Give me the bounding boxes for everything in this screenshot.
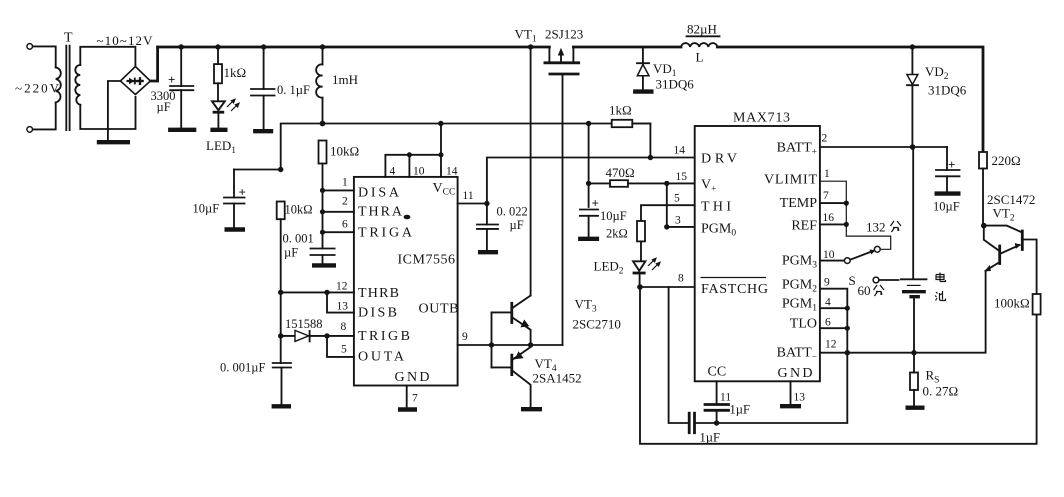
resistor 10k (left rail) [277,202,313,336]
inductor L 82uH [681,22,720,65]
wire top rail (right of VT1) [573,46,681,49]
switch S [820,246,899,298]
svg-text:151588: 151588 [285,317,323,331]
wire PGM2/PGM1/TLO tie [717,289,850,423]
svg-text:PGM1: PGM1 [782,297,817,314]
svg-text:+: + [168,72,175,87]
node VD2/battery [910,144,916,150]
pin1 DISA [320,177,400,201]
svg-text:100kΩ: 100kΩ [994,296,1030,311]
svg-text:6: 6 [825,317,831,329]
svg-text:GND: GND [395,370,430,385]
svg-text:14: 14 [674,145,686,157]
svg-text:7: 7 [412,393,418,405]
diode 1S1588 [278,317,354,341]
svg-text:1µF: 1µF [700,431,720,445]
capacitor 10uF (battery) [933,147,961,214]
svg-text:REF: REF [791,219,817,234]
node emitters [528,342,533,347]
diode VD2 31DQ6 [907,44,967,147]
svg-text:DRV: DRV [701,152,737,167]
transistor VT4 2SA1452 [492,345,582,408]
resistor RS 0.27R [906,353,959,408]
pin12 THRB [336,281,399,302]
svg-text:4: 4 [390,166,396,178]
wire V+ to PGM0 [666,183,668,227]
svg-text:1mH: 1mH [332,72,358,87]
ground (VT4 collector) [521,407,542,411]
resistor 220R [979,152,1021,226]
wire FASTCHG down to bottom rail [640,287,1037,444]
svg-text:TLO: TLO [790,317,817,332]
svg-text:31DQ6: 31DQ6 [928,83,967,98]
wire BATT- rail [820,271,986,353]
capacitor 1uF (CC) [705,381,750,425]
node battery bottom [911,350,916,355]
svg-text:1: 1 [342,177,348,189]
svg-text:~220V: ~220V [15,81,60,96]
LED1 [206,98,240,156]
svg-text:2: 2 [342,196,348,208]
resistor 1k (DRV) [609,103,653,161]
svg-text:µF: µF [157,100,171,114]
svg-text:11: 11 [463,190,474,202]
diode VD1 31DQ6 [633,47,694,92]
svg-text:ICM7556: ICM7556 [398,253,456,268]
svg-text:220Ω: 220Ω [992,153,1021,168]
capacitor 0.001uF (bottom left rail) [220,336,291,406]
svg-text:2SC2710: 2SC2710 [573,317,621,332]
svg-text:µF: µF [510,218,524,232]
svg-text:10µF: 10µF [933,200,960,214]
transformer T primary winding [56,67,61,102]
svg-text:13: 13 [337,301,349,313]
bridge rectifier [120,47,150,95]
ground (bridge) [97,140,130,144]
wire primary bottom [33,102,56,129]
terminal top-left [27,44,33,50]
glyph fen2 [874,285,885,296]
svg-text:TRIGB: TRIGB [358,329,410,344]
LED2 [594,257,662,287]
svg-text:4: 4 [825,297,831,309]
node BATT- / pins vertical [845,350,850,355]
svg-text:TEMP: TEMP [780,196,818,211]
node sub-rail / 470R branch [586,121,591,126]
capacitor 10uF (left) [193,167,284,230]
svg-text:PGM2: PGM2 [782,278,817,295]
node VT3 collector rail [528,44,533,49]
wire secondary bottom [80,97,135,129]
pin6 TRIGA [320,219,413,241]
svg-text:PGM3: PGM3 [782,254,817,271]
wire VT3/VT4 base tie [491,312,493,367]
wire pin11 to DRV [487,158,695,204]
svg-text:OUTB: OUTB [419,302,459,317]
svg-text:7: 7 [823,190,829,202]
svg-text:10: 10 [413,166,425,178]
IC ICM7556 box [354,177,458,386]
node FASTCHG [637,284,643,290]
svg-text:9: 9 [462,331,468,343]
transformer core [65,46,67,130]
capacitor 10uF (V+) [578,196,627,239]
wire top rail (right of L) [717,47,983,152]
wire PGM0 lead [667,226,695,228]
node PGM0 [664,224,669,229]
pins 4/10/14 bracket [385,124,457,178]
transistor VT3 2SC2710 [492,296,621,346]
resistor 470R [589,165,695,187]
resistor 1k (LED1) [214,47,246,100]
svg-text:µF: µF [284,246,298,260]
wire BATT+ lead [820,146,947,148]
svg-text:13: 13 [794,392,806,404]
svg-text:FASTCHG: FASTCHG [701,282,768,297]
svg-text:0. 022: 0. 022 [497,205,528,219]
svg-text:10µF: 10µF [193,202,220,216]
node V+ branch [586,181,591,186]
svg-text:3: 3 [675,215,681,227]
svg-text:1kΩ: 1kΩ [224,65,247,80]
wire top rail (left of VT1) [158,46,550,49]
svg-text:0. 001: 0. 001 [283,232,314,246]
pin5 OUTA [327,336,405,365]
capacitor 0.001uF (TRIGA) [283,232,337,266]
svg-text:CC: CC [708,365,727,380]
svg-text:+: + [948,157,955,172]
svg-text:2SJ123: 2SJ123 [545,27,583,42]
node 1k/LED1 [215,44,220,49]
svg-text:60: 60 [858,283,871,298]
wire secondary top [80,47,133,65]
node 3300uF [179,44,184,49]
inductor 1mH [316,47,358,124]
svg-text:31DQ6: 31DQ6 [656,77,695,92]
svg-text:10µF: 10µF [600,209,627,223]
svg-text:T: T [64,31,73,46]
svg-text:VLIMIT: VLIMIT [764,173,817,188]
capacitor 1uF (FASTCHG) [689,413,720,444]
svg-text:~10~12V: ~10~12V [97,33,154,48]
capacitor 0.022uF [477,204,528,253]
glyph dian [936,273,946,282]
svg-text:5: 5 [674,193,680,205]
svg-text:2kΩ: 2kΩ [606,227,628,241]
node sub-rail / 1mH [320,121,326,127]
svg-text:14: 14 [446,166,458,178]
svg-text:L: L [696,50,704,65]
wire FASTCHG lead [640,286,695,288]
transistor VT1 2SJ123 (P-MOSFET) [515,27,584,75]
wire bridge output to rail [150,47,157,81]
terminal bottom-left [27,127,33,133]
svg-text:DISA: DISA [358,186,400,201]
svg-text:TRIGA: TRIGA [358,226,413,241]
node sub-rail / pin14 [438,121,443,126]
svg-text:+: + [592,196,599,211]
capacitor 3300uF [151,47,197,130]
svg-text:12: 12 [825,339,837,351]
battery [901,147,946,353]
svg-text:15: 15 [676,171,688,183]
svg-text:9: 9 [824,277,830,289]
wire THI lead [641,205,695,221]
svg-text:132: 132 [866,220,886,235]
glyph chi [935,291,946,301]
capacitor 0.1uF [251,47,310,131]
svg-text:PGM0: PGM0 [701,222,736,239]
wire 1uF branch from FASTCHG lead [669,287,689,423]
svg-text:0. 001µF: 0. 001µF [220,361,265,375]
transformer secondary winding [75,65,80,105]
pin11 lead [458,190,490,206]
resistor 2k [606,221,645,261]
svg-text:MAX713: MAX713 [733,111,790,126]
svg-text:470Ω: 470Ω [606,165,635,180]
svg-text:5: 5 [341,344,347,356]
svg-text:8: 8 [341,321,347,333]
svg-text:GND: GND [778,366,813,381]
svg-text:S: S [849,273,856,288]
node base [489,342,494,347]
svg-text:10kΩ: 10kΩ [330,144,359,159]
svg-text:BATT−: BATT− [777,346,817,363]
svg-text:2SA1452: 2SA1452 [533,371,582,386]
svg-text:0. 27Ω: 0. 27Ω [923,384,959,399]
glyph fen1 [891,221,902,232]
svg-text:1kΩ: 1kΩ [609,103,632,118]
wire primary top [33,46,56,67]
wire 470R branch vertical [588,124,590,208]
node 1mH [320,44,325,49]
svg-text:1: 1 [824,168,830,180]
wire Vcc sub-rail [281,124,651,170]
wire VT1 gate vertical [562,74,564,345]
pin2 THRA [320,196,411,220]
svg-text:BATT+: BATT+ [777,141,817,158]
svg-text:6: 6 [342,219,348,231]
resistor 100k [994,294,1041,315]
svg-text:1µF: 1µF [730,403,750,417]
svg-text:16: 16 [823,212,835,224]
svg-text:+: + [239,185,246,200]
transistor VT2 2SC1472 [981,192,1037,294]
svg-text:82µH: 82µH [687,22,717,37]
svg-text:10: 10 [823,249,835,261]
svg-text:10kΩ: 10kΩ [285,203,313,217]
resistor 10k (top, to DISA) [319,141,360,233]
wire THRB/DISB to left rail [278,290,354,313]
ground pin13 (MAX) [780,381,805,406]
wire OUTB to gate [458,344,563,346]
wire VLIMIT/TEMP/REF tie [820,181,891,249]
node 0.1uF [261,44,266,49]
label GND / pin7 ground [395,370,430,410]
wire bridge left to ground [108,81,121,140]
wire VT3 collector vertical [530,47,532,296]
svg-text:THRA: THRA [358,205,403,220]
svg-text:12: 12 [336,281,348,293]
svg-text:THRB: THRB [358,286,399,301]
svg-text:0. 1µF: 0. 1µF [277,83,310,97]
svg-text:2: 2 [822,133,828,145]
IC MAX713 box [695,126,820,381]
svg-text:DISB: DISB [358,306,397,321]
svg-text:8: 8 [678,273,684,285]
svg-text:THI: THI [701,200,731,215]
